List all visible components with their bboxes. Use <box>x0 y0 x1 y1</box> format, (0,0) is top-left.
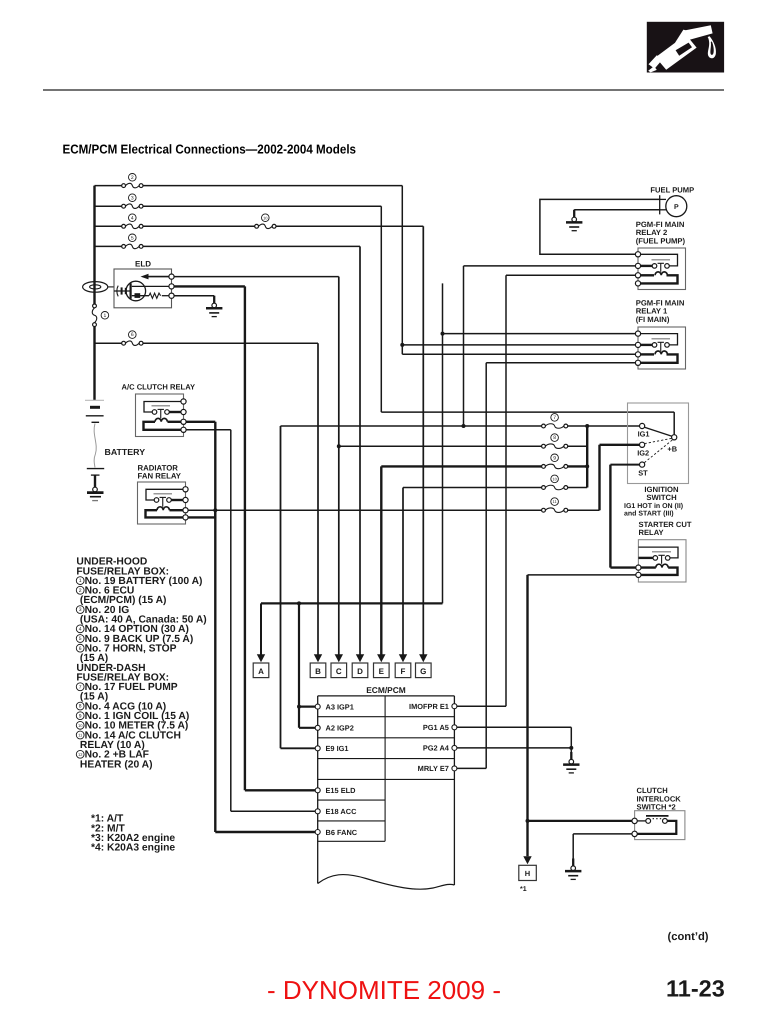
svg-text:IMOFPR E1: IMOFPR E1 <box>409 702 449 711</box>
ECM/PCM pin terminals <box>315 704 457 835</box>
red watermark <box>267 975 501 1005</box>
wire: node run y=603.4 (bold) <box>261 601 443 655</box>
connector H <box>519 865 537 880</box>
fuse 5 <box>122 234 143 249</box>
wire: fuse (2) feed, y=186 to corner x=402 <box>95 185 403 187</box>
svg-text:HEATER (20 A): HEATER (20 A) <box>80 759 153 770</box>
svg-text:(cont’d): (cont’d) <box>668 931 709 943</box>
wire: fuse7 corner x=280.5 down to E9 IG1 <box>281 426 316 748</box>
wire: clutch interlock pin1 (bold) <box>528 820 632 822</box>
svg-text:12: 12 <box>78 752 83 757</box>
fuse 4 <box>122 214 143 229</box>
svg-text:B: B <box>315 667 321 676</box>
wire: battery feed bus (vertical, x=94.5) <box>93 186 95 401</box>
+B label <box>667 445 677 454</box>
CLUTCH INTERLOCK SWITCH label <box>637 786 682 811</box>
wire: fuse (5) feed, y=246 to corner x=360 <box>95 245 361 247</box>
ground (fuel pump) <box>566 210 582 231</box>
svg-text:E15 ELD: E15 ELD <box>326 786 357 795</box>
svg-text:4: 4 <box>131 215 134 221</box>
connector C <box>331 654 347 677</box>
ignition switch contacts <box>640 423 677 467</box>
svg-text:C: C <box>336 667 342 676</box>
wire: branch x=299 to A3 IGP1 / A2 IGP2 (bold) <box>297 603 315 727</box>
connector D <box>352 654 368 677</box>
PGM-FI MAIN RELAY 1 label <box>636 299 685 324</box>
ignition switch box <box>628 403 689 484</box>
wire: relay2 pin4 to x=442.5 down to node y=603 <box>441 283 445 603</box>
wire: down x=318 to connector B <box>317 343 319 655</box>
relay: starter cut relay <box>636 540 686 582</box>
svg-text:MRLY E7: MRLY E7 <box>418 764 449 773</box>
connector F <box>395 654 411 677</box>
under-hood / under-dash fuse list <box>76 557 206 771</box>
ELD label <box>135 259 151 268</box>
fuse 2 <box>122 174 143 188</box>
ECM/PCM box <box>318 696 455 889</box>
ECM/PCM label <box>366 685 406 695</box>
pin label MRLY E7 <box>418 764 449 773</box>
svg-text:*1: *1 <box>520 886 527 893</box>
wire: fuel pump to ground <box>574 209 660 212</box>
svg-text:B6 FANC: B6 FANC <box>326 828 358 837</box>
ground (PG1/PG2) <box>563 752 579 773</box>
FUEL PUMP label <box>650 185 694 194</box>
wire: relay1 pin1 from x=442.5 <box>443 333 636 335</box>
svg-text:A: A <box>258 667 264 676</box>
wire: fuel pump feed to relay2 pin1 <box>540 199 660 254</box>
svg-text:FUEL PUMP: FUEL PUMP <box>650 185 694 194</box>
svg-text:8: 8 <box>553 435 556 441</box>
ELD terminal arrow (points left) <box>141 274 170 280</box>
svg-text:F: F <box>401 667 406 676</box>
wire: fuse (3) feed, y=206 to corner x=381 <box>95 205 382 207</box>
svg-text:G: G <box>420 667 426 676</box>
svg-text:ECM/PCM: ECM/PCM <box>366 685 406 695</box>
svg-text:BATTERY: BATTERY <box>105 447 146 457</box>
H note *1 <box>520 886 527 893</box>
pin label E15 ELD <box>326 786 357 795</box>
wire: A/C relay pin3 to B6 FANC (bold, x=215.3) <box>186 422 315 832</box>
svg-text:ST: ST <box>638 468 648 477</box>
wire: ST to starter cut relay (bold) <box>610 465 639 568</box>
svg-text:A/C CLUTCH RELAY: A/C CLUTCH RELAY <box>122 383 196 392</box>
svg-text:6: 6 <box>131 332 134 338</box>
wire: fuse (7) run y=426 to IG1 <box>281 424 640 428</box>
wire: fan relay pin3 / fuse (11) run y=510 <box>188 509 599 511</box>
wire: IG2 down feed x=599.5 (bold) <box>598 445 600 510</box>
svg-text:PG2 A4: PG2 A4 <box>423 744 450 753</box>
RADIATOR FAN RELAY label <box>138 464 182 481</box>
svg-text:and START (III): and START (III) <box>624 510 674 518</box>
svg-text:ECM/PCM Electrical Connections: ECM/PCM Electrical Connections—2002-2004… <box>63 142 357 157</box>
svg-text:7: 7 <box>553 415 556 421</box>
svg-text:SWITCH: SWITCH <box>646 493 677 502</box>
fuel pump nozzle icon <box>647 22 724 73</box>
svg-text:2: 2 <box>79 588 82 594</box>
wire: clutch interlock pin2 to ground <box>573 834 632 859</box>
pin label E9 IG1 <box>326 744 349 753</box>
ignition switch dashed IG2-+B <box>645 438 672 443</box>
wire: fuse (10b) run y=487.5 <box>403 487 587 489</box>
ground (clutch interlock) <box>565 859 581 880</box>
STARTER CUT RELAY label <box>639 520 692 537</box>
pin label A3 IGP1 <box>326 702 354 711</box>
ST label <box>638 468 648 477</box>
wire: fuse (6) feed y=343 to corner x=318 <box>95 342 319 344</box>
ELD current-sensor loop on bus <box>83 282 114 293</box>
svg-text:(FI MAIN): (FI MAIN) <box>636 315 670 324</box>
fuse 11 <box>542 498 568 513</box>
ELD internal resistor <box>149 293 172 298</box>
wire: down x=360 to connector D <box>359 246 361 655</box>
svg-text:2: 2 <box>131 175 134 181</box>
PGM-FI MAIN RELAY 2 label <box>636 220 686 245</box>
svg-text:6: 6 <box>79 646 82 652</box>
ELD box <box>114 269 172 308</box>
wire: fuse(3) output down x=381 to ignition switch +B <box>381 206 674 434</box>
svg-text:7: 7 <box>79 684 82 690</box>
IG1 label <box>638 430 650 439</box>
svg-text:E18 ACC: E18 ACC <box>326 807 358 816</box>
svg-text:IG1: IG1 <box>638 430 650 439</box>
wire: A/C relay pin4 to E18 ACC (x=230.8) <box>186 430 315 812</box>
wire: fuse (9) run y=466.4 (bold) to bus <box>381 464 589 468</box>
svg-text:IG1 HOT in ON (II): IG1 HOT in ON (II) <box>624 502 683 510</box>
svg-text:4: 4 <box>79 626 82 632</box>
svg-text:(FUEL PUMP): (FUEL PUMP) <box>636 236 686 245</box>
svg-text:P: P <box>674 204 679 211</box>
page number 11-23 <box>666 976 725 1002</box>
wire: PG1 A5 / PG2 A4 to ground <box>457 727 573 760</box>
svg-text:PG1 A5: PG1 A5 <box>423 723 449 732</box>
svg-text:9: 9 <box>553 455 556 461</box>
pin label A2 IGP2 <box>326 724 354 733</box>
svg-text:5: 5 <box>131 235 134 241</box>
svg-text:RELAY: RELAY <box>639 528 664 537</box>
wire: under-dash feed bus x=587.2 (bold) <box>586 426 588 488</box>
svg-text:E9 IG1: E9 IG1 <box>326 744 349 753</box>
svg-text:A3 IGP1: A3 IGP1 <box>326 702 354 711</box>
wire: fan relay pin4 joins x=215 (bold) <box>188 510 215 517</box>
svg-text:+B: +B <box>667 445 677 454</box>
svg-text:3: 3 <box>131 195 134 201</box>
fuse 6 <box>122 331 143 346</box>
ELD transistor <box>114 281 172 301</box>
ignition switch wiper IG1-+B <box>645 427 672 436</box>
pin label E18 ACC <box>326 807 358 816</box>
pin label IMOFPR E1 <box>409 702 449 711</box>
svg-text:A2 IGP2: A2 IGP2 <box>326 724 354 733</box>
wire: relay2 pin3 to IMOFPR E1 via x=506 <box>457 275 636 706</box>
relay: radiator fan relay <box>138 482 189 524</box>
svg-text:E: E <box>379 667 385 676</box>
svg-text:10: 10 <box>263 215 268 220</box>
pin label PG2 A4 <box>423 744 450 753</box>
fuse 8 <box>542 434 568 449</box>
wire: fuse(2) output down x=402 to PGM-FI main relay 1 <box>400 186 635 355</box>
svg-text:1: 1 <box>79 578 82 584</box>
fuse 7 <box>542 414 568 429</box>
relay: PGM-FI main relay 2 <box>635 248 685 290</box>
pin label PG1 A5 <box>423 723 449 732</box>
wire: starter cut relay pin2 to clutch/H node <box>526 575 636 856</box>
fuse 10 (on wire 4) <box>255 214 276 229</box>
svg-text:FAN RELAY: FAN RELAY <box>138 472 182 481</box>
svg-text:5: 5 <box>79 636 82 642</box>
svg-text:*4: K20A3 engine: *4: K20A3 engine <box>91 843 175 854</box>
switch: clutch interlock switch <box>632 811 685 840</box>
ELD terminal pins <box>169 274 174 298</box>
fuse 9 <box>542 454 568 469</box>
IG1 HOT note <box>624 502 683 518</box>
(cont'd) note <box>668 931 709 943</box>
fuse 3 <box>122 194 143 209</box>
wire: ELD terminal3 to ground <box>174 295 214 297</box>
wire: fuse10 corner down x=403 to connector F <box>402 488 404 656</box>
svg-text:H: H <box>525 869 530 878</box>
wire: ELD terminal1 to connector C (x=338.8) with tap of fuse 8 <box>174 277 341 656</box>
svg-text:1: 1 <box>104 313 107 319</box>
svg-text:- DYNOMITE 2009 -: - DYNOMITE 2009 - <box>267 975 501 1005</box>
fuel pump symbol <box>660 195 687 217</box>
ignition switch dashed ST-+B <box>644 440 672 463</box>
pin label B6 FANC <box>326 828 358 837</box>
connector E <box>374 654 390 677</box>
wire: fuse (4) feed, y=226 with fuse (10) to corner x=423 <box>95 225 424 227</box>
relay: A/C clutch relay <box>136 394 187 437</box>
wire: down x=423 to connector G <box>422 226 424 655</box>
A/C CLUTCH RELAY label <box>122 383 196 392</box>
svg-text:ELD: ELD <box>135 259 151 268</box>
svg-text:3: 3 <box>79 607 82 613</box>
wire: relay1 pin4 to MRLY E7 via x=486.2 <box>457 363 636 769</box>
BATTERY label <box>105 447 146 457</box>
IG2 label <box>637 448 649 457</box>
header rule <box>43 89 724 91</box>
wire: fuse8 IG2 link (bold) <box>600 444 640 446</box>
fuse 10b <box>542 475 568 490</box>
wire: ELD terminal2 to ECM E15 ELD (bold) <box>174 286 315 790</box>
svg-text:8: 8 <box>79 704 82 710</box>
svg-text:11-23: 11-23 <box>666 976 725 1002</box>
asterisk notes <box>91 814 175 854</box>
connector A <box>253 654 269 677</box>
ground (ELD) <box>206 296 222 317</box>
svg-text:IG2: IG2 <box>637 448 649 457</box>
wire: fuse (8) run y=446.2 <box>339 445 587 447</box>
wire: arrow into H <box>523 856 531 864</box>
connector G <box>416 654 432 677</box>
battery symbol <box>85 400 104 468</box>
fuse 1 (vertical on bus) <box>92 304 108 327</box>
svg-text:10: 10 <box>552 477 557 482</box>
wire: fuse9 corner down x=381.3 to connector E (bold) <box>380 466 382 655</box>
svg-text:9: 9 <box>79 713 82 719</box>
wire: relay2 pin2 down x=463.5 to fuse7 wire <box>464 266 636 426</box>
connector B <box>310 654 326 677</box>
IGNITION SWITCH label <box>644 485 679 502</box>
relay: PGM-FI main relay 1 <box>635 327 685 369</box>
svg-text:D: D <box>357 667 363 676</box>
svg-text:10: 10 <box>78 723 83 728</box>
ground (battery) <box>87 475 104 501</box>
